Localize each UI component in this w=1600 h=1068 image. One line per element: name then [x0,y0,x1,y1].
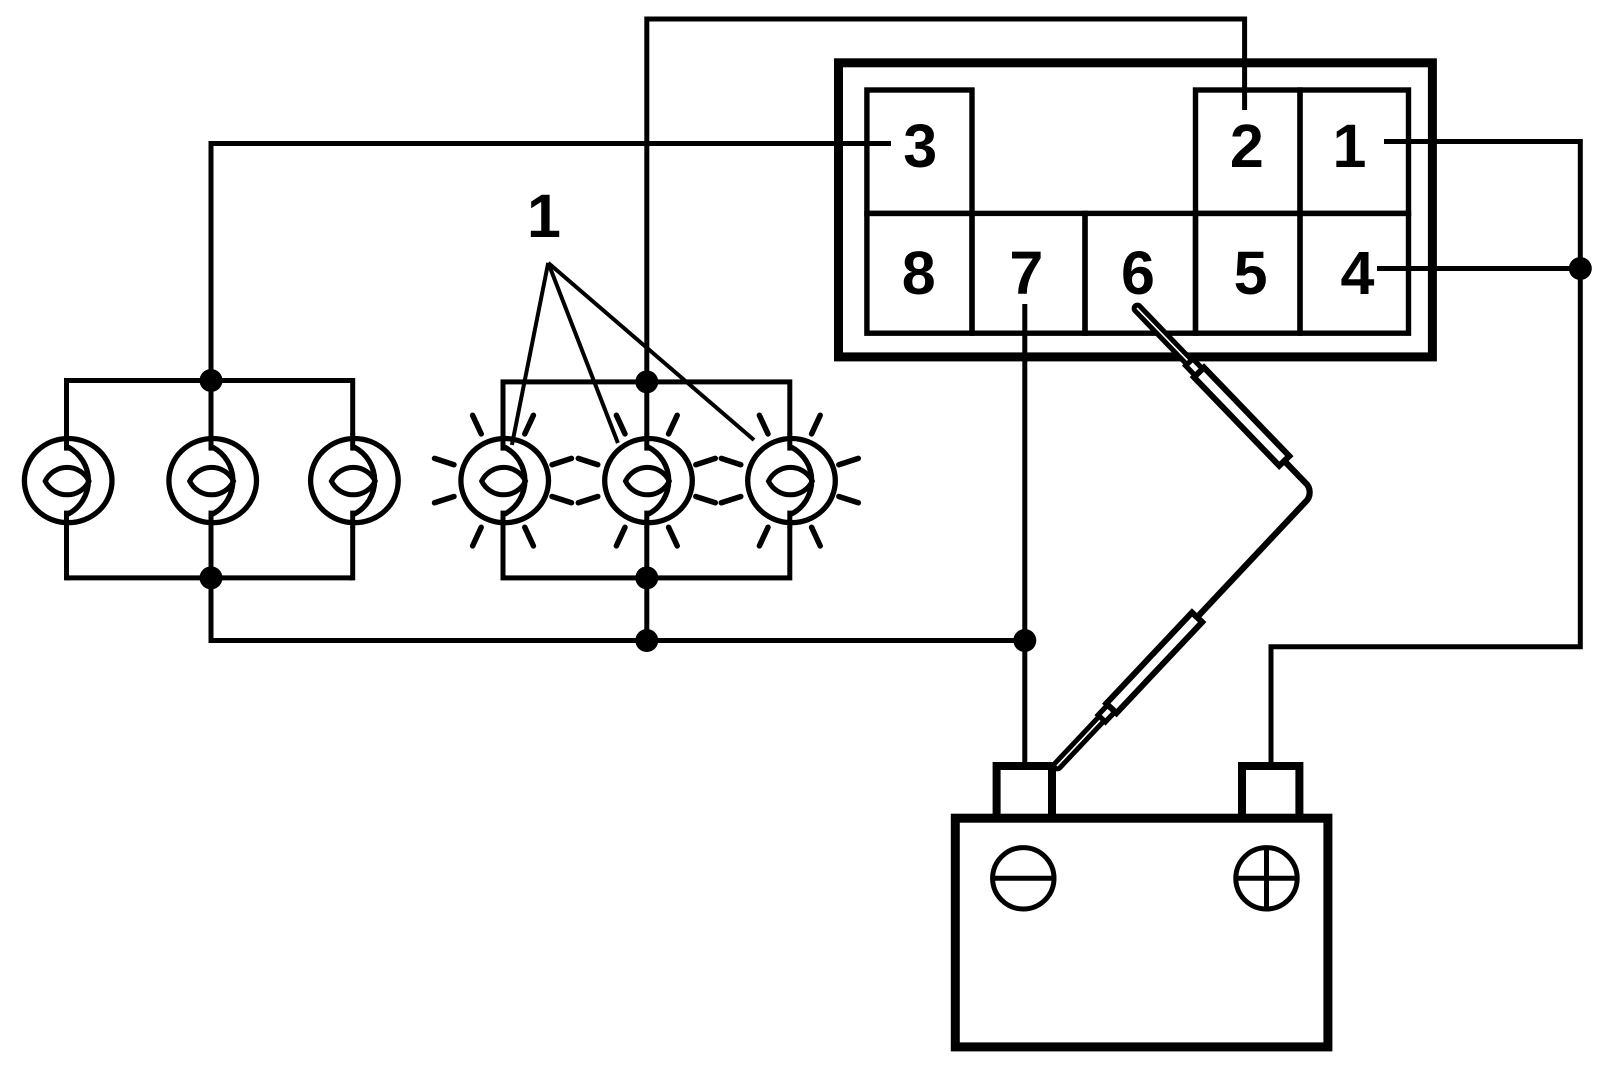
lamp L3 (unlit) [307,433,399,528]
G1 right lamp feed wire [350,378,355,481]
node G2 top junction [635,370,658,393]
battery positive polarity mark [1236,848,1297,909]
test lead upper probe at pin 6 [1130,301,1289,466]
lamp L5 (lit) [578,415,715,546]
svg-text:7: 7 [1009,239,1043,307]
pin 3 cell [867,90,972,213]
svg-text:1: 1 [1333,112,1367,180]
test lead lower probe at battery negative [1050,613,1202,773]
lamp group G2 frame [503,382,790,578]
pin 1 cell [1300,90,1409,213]
lamp L6 (lit) [721,415,858,546]
battery positive terminal post [1242,766,1299,818]
connector block outer border [839,63,1433,357]
wire pin7 to node B [1022,304,1027,641]
node G2 bottom junction [635,566,658,589]
test lead middle wire with bend [1196,457,1310,618]
node G1 top junction [200,369,223,392]
pin 2 cell [1196,90,1301,213]
svg-text:4: 4 [1341,239,1375,307]
pin 7 cell [972,213,1085,333]
label 1 leader lines [512,263,548,445]
svg-text:1: 1 [527,182,561,250]
G1 left lamp feed wire [64,378,69,481]
lamp group G1 top rail wire [67,378,353,383]
svg-text:2: 2 [1230,112,1264,180]
lamp group G1 bottom rail wire [67,575,353,580]
G2 bottom to ground bus wire [644,578,649,641]
lamp L1 (unlit) [21,433,113,528]
wire pin4 to node A [1377,266,1580,271]
wire node A to battery positive terminal [1271,269,1580,767]
G1 middle lamp feed wire [209,381,214,481]
battery negative terminal post [997,766,1052,818]
pin 6 cell [1085,213,1196,333]
pin 4 cell [1300,213,1409,333]
wire pin1 to node A [1384,142,1580,269]
node A junction [1569,257,1592,280]
pin 5 cell [1196,213,1301,333]
node B junction [1013,629,1036,652]
lamp L2 (unlit) [165,433,257,528]
node ground bus / G2 junction [635,629,658,652]
battery negative polarity mark [993,848,1054,909]
G1 lamp return wires [64,481,69,581]
ground bus wire G1/G2 bottom to node B [211,578,1025,641]
svg-text:6: 6 [1121,239,1155,307]
wire pin2 to lamp group G2 top [647,19,1245,382]
svg-text:8: 8 [902,239,936,307]
svg-text:3: 3 [903,112,937,180]
svg-text:5: 5 [1234,239,1268,307]
lamp L4 (lit) [435,415,572,546]
battery body [955,818,1328,1047]
G2 middle lamp feed wire [644,382,649,578]
wire pin3 to lamp group G1 top [211,144,891,381]
node G1 bottom junction [200,566,223,589]
wire node B to battery negative terminal [1022,641,1027,767]
pin 8 cell [867,213,972,333]
